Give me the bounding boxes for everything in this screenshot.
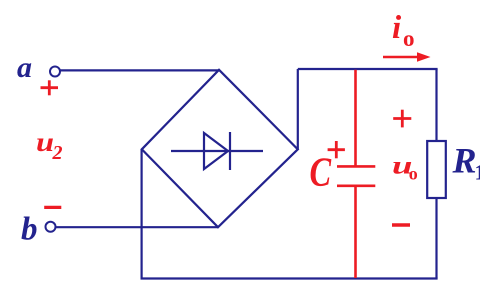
svg-text:u: u bbox=[36, 127, 54, 157]
svg-text:o: o bbox=[409, 164, 418, 184]
svg-text:a: a bbox=[17, 51, 32, 84]
svg-text:R: R bbox=[452, 141, 477, 181]
svg-text:i: i bbox=[392, 10, 402, 46]
svg-text:o: o bbox=[403, 26, 415, 51]
svg-text:C: C bbox=[310, 149, 332, 194]
svg-text:b: b bbox=[21, 212, 38, 248]
svg-text:2: 2 bbox=[52, 142, 63, 164]
svg-text:1: 1 bbox=[475, 160, 480, 185]
